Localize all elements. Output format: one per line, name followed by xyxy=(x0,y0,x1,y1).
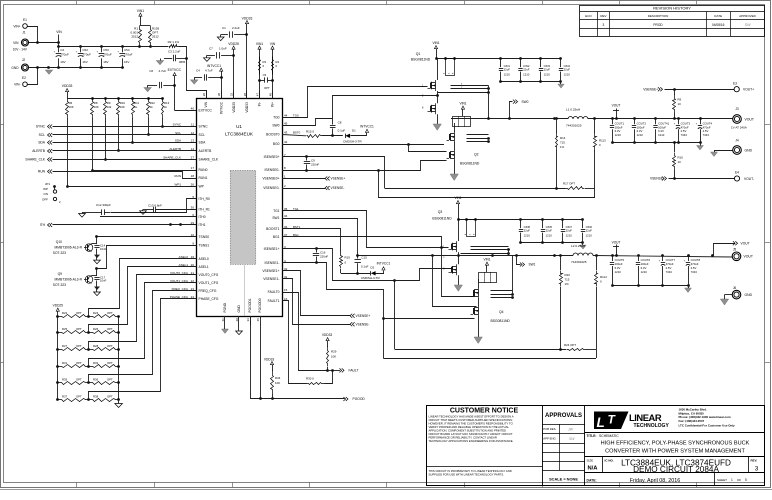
svg-text:DATE: DATE xyxy=(714,14,722,18)
svg-text:270uF: 270uF xyxy=(124,52,133,56)
svg-text:D1: D1 xyxy=(352,129,356,133)
svg-text:R23: R23 xyxy=(93,311,99,315)
svg-text:7343: 7343 xyxy=(703,133,710,137)
svg-text:SW0: SW0 xyxy=(272,124,279,128)
svg-text:10V - 14V: 10V - 14V xyxy=(13,47,28,51)
svg-text:0805: 0805 xyxy=(179,60,186,64)
svg-text:VIN: VIN xyxy=(204,101,208,107)
svg-text:THIS CIRCUIT IS PROPRIETARY TO: THIS CIRCUIT IS PROPRIETARY TO LINEAR TE… xyxy=(429,469,512,473)
svg-text:PHASE_CFG: PHASE_CFG xyxy=(170,295,189,299)
svg-text:IN+: IN+ xyxy=(271,102,275,107)
svg-text:1210: 1210 xyxy=(566,234,573,238)
svg-text:R24 OPT: R24 OPT xyxy=(564,343,576,347)
svg-text:DESCRIPTION: DESCRIPTION xyxy=(648,14,669,18)
svg-text:VIN1: VIN1 xyxy=(483,258,490,262)
svg-text:OPT: OPT xyxy=(76,395,82,399)
svg-text:715: 715 xyxy=(560,141,565,145)
svg-text:38: 38 xyxy=(217,93,221,97)
svg-text:ALERTB: ALERTB xyxy=(32,149,46,153)
svg-text:GND: GND xyxy=(11,66,19,70)
svg-text:PROD: PROD xyxy=(653,23,663,27)
svg-text:RUN1: RUN1 xyxy=(199,176,208,180)
svg-text:270uF: 270uF xyxy=(82,52,91,56)
svg-text:1210: 1210 xyxy=(637,133,644,137)
svg-text:IC NO.: IC NO. xyxy=(605,458,614,462)
svg-text:EXTVCC: EXTVCC xyxy=(168,68,182,72)
svg-text:22uF: 22uF xyxy=(544,68,551,72)
svg-text:ISENSE1-: ISENSE1- xyxy=(264,261,279,265)
svg-text:R38: R38 xyxy=(93,395,99,399)
svg-text:VOUT0_CFG: VOUT0_CFG xyxy=(199,273,219,277)
svg-text:BSG0811ND: BSG0811ND xyxy=(491,319,511,323)
svg-text:OPT: OPT xyxy=(107,378,113,382)
svg-text:4.7uF: 4.7uF xyxy=(159,69,167,73)
svg-text:R37: R37 xyxy=(62,395,68,399)
svg-text:REVISION HISTORY: REVISION HISTORY xyxy=(653,6,691,11)
svg-text:INTVCC1: INTVCC1 xyxy=(377,262,391,266)
svg-text:OPT: OPT xyxy=(107,327,113,331)
svg-text:18: 18 xyxy=(191,174,195,178)
svg-text:VSENSE+: VSENSE+ xyxy=(331,177,346,181)
svg-text:ISENSE1+: ISENSE1+ xyxy=(264,247,280,251)
svg-text:J4: J4 xyxy=(735,139,739,143)
svg-text:SYNC: SYNC xyxy=(173,123,182,127)
svg-text:C1: C1 xyxy=(222,26,226,30)
svg-text:1210: 1210 xyxy=(524,234,531,238)
svg-text:VDD25: VDD25 xyxy=(53,304,64,308)
svg-text:R15 0: R15 0 xyxy=(306,129,314,133)
svg-text:VIN1: VIN1 xyxy=(256,42,263,46)
svg-text:SHARE_CLK: SHARE_CLK xyxy=(163,156,181,160)
svg-text:APPROVED: APPROVED xyxy=(739,14,757,18)
svg-text:SCALE = NONE: SCALE = NONE xyxy=(549,476,578,481)
svg-text:1210: 1210 xyxy=(504,73,511,77)
svg-text:VOUT+: VOUT+ xyxy=(743,88,754,92)
svg-text:L2 0.25uH: L2 0.25uH xyxy=(571,244,585,248)
svg-text:JP1: JP1 xyxy=(45,182,51,186)
svg-text:Q10: Q10 xyxy=(56,240,62,244)
svg-text:LTC3884EUK: LTC3884EUK xyxy=(225,132,254,137)
svg-text:J2: J2 xyxy=(22,58,26,62)
svg-text:JW: JW xyxy=(567,428,574,432)
svg-text:VOUT1_CFG: VOUT1_CFG xyxy=(199,281,219,285)
svg-text:22uF: 22uF xyxy=(586,229,593,233)
svg-text:VOUT-: VOUT- xyxy=(744,177,754,181)
svg-text:ISENSE0-: ISENSE0- xyxy=(264,168,279,172)
svg-text:CONVERTER WITH POWER SYSTEM MA: CONVERTER WITH POWER SYSTEM MANAGEMENT xyxy=(605,449,745,455)
svg-text:TECHNOLOGY APPLICATIONS ENGINE: TECHNOLOGY APPLICATIONS ENGINEERING FOR … xyxy=(429,439,514,443)
svg-text:VDD33: VDD33 xyxy=(242,16,253,20)
svg-text:22uF: 22uF xyxy=(523,68,530,72)
svg-text:VOUT: VOUT xyxy=(744,255,753,259)
svg-text:42: 42 xyxy=(284,140,288,144)
svg-text:R30 0: R30 0 xyxy=(306,377,314,381)
svg-text:R34: R34 xyxy=(275,376,281,380)
svg-text:10K: 10K xyxy=(94,105,99,109)
svg-text:SDA: SDA xyxy=(38,141,46,145)
svg-text:ASEL0: ASEL0 xyxy=(179,255,189,259)
svg-text:LTC Confidential-For Customer: LTC Confidential-For Customer Use Only xyxy=(679,423,736,427)
svg-text:16V: 16V xyxy=(103,60,108,64)
svg-text:VDD33: VDD33 xyxy=(322,333,333,337)
svg-text:SYNC: SYNC xyxy=(36,125,46,129)
svg-text:SDA: SDA xyxy=(175,139,181,143)
svg-text:OPT: OPT xyxy=(76,327,82,331)
svg-text:PGND: PGND xyxy=(223,302,227,312)
svg-text:TSNS0: TSNS0 xyxy=(199,235,210,239)
svg-text:E2: E2 xyxy=(22,76,26,80)
svg-text:ITH1: ITH1 xyxy=(199,223,206,227)
svg-text:VSENSE+: VSENSE+ xyxy=(356,314,371,318)
svg-text:APPROVALS: APPROVALS xyxy=(545,413,582,419)
svg-text:SDA: SDA xyxy=(199,141,207,145)
svg-text:C8: C8 xyxy=(338,120,342,124)
svg-text:BG0: BG0 xyxy=(273,142,280,146)
svg-text:C3 2.2uF: C3 2.2uF xyxy=(168,50,181,54)
svg-text:N/A: N/A xyxy=(588,466,599,472)
svg-text:BG1: BG1 xyxy=(273,235,280,239)
svg-text:270uF: 270uF xyxy=(103,52,112,56)
svg-text:INTVCC: INTVCC xyxy=(219,101,223,114)
svg-text:VIN: VIN xyxy=(56,30,62,34)
svg-text:TECHNOLOGY: TECHNOLOGY xyxy=(634,423,670,429)
svg-text:INTVCC1: INTVCC1 xyxy=(360,125,374,129)
svg-text:R35: R35 xyxy=(62,378,68,382)
svg-text:Q4: Q4 xyxy=(499,310,504,314)
svg-text:VDD25: VDD25 xyxy=(232,102,236,113)
svg-text:VOUT1_CFG: VOUT1_CFG xyxy=(170,279,189,283)
svg-text:22uF: 22uF xyxy=(566,229,573,233)
svg-text:VSENSE0-: VSENSE0- xyxy=(263,186,279,190)
svg-text:1V AT 240A: 1V AT 240A xyxy=(731,126,747,130)
svg-text:220nF: 220nF xyxy=(311,163,319,167)
svg-text:E4: E4 xyxy=(735,171,739,175)
svg-text:VDD25: VDD25 xyxy=(228,42,239,46)
svg-text:WP: WP xyxy=(199,185,205,189)
svg-text:SCL: SCL xyxy=(39,133,46,137)
svg-text:C7: C7 xyxy=(209,47,213,51)
svg-text:APP ENG.: APP ENG. xyxy=(543,436,556,440)
svg-text:SHARE_CLK: SHARE_CLK xyxy=(25,158,45,162)
svg-text:0.1uF: 0.1uF xyxy=(361,265,369,269)
svg-text:1.0uF: 1.0uF xyxy=(219,47,227,51)
svg-text:SYNC: SYNC xyxy=(199,125,209,129)
svg-text:R113: R113 xyxy=(599,139,606,143)
svg-text:ASEL1: ASEL1 xyxy=(179,263,189,267)
svg-text:DEMO CIRCUIT 2084A: DEMO CIRCUIT 2084A xyxy=(633,465,719,474)
svg-text:BST0: BST0 xyxy=(293,130,301,134)
svg-text:VIN1: VIN1 xyxy=(459,102,466,106)
svg-text:10: 10 xyxy=(678,160,682,164)
svg-text:R32: R32 xyxy=(93,361,99,365)
svg-text:L: L xyxy=(597,415,605,430)
svg-text:SW: SW xyxy=(569,437,575,441)
svg-text:ASEL1: ASEL1 xyxy=(199,265,209,269)
svg-text:SIZE: SIZE xyxy=(587,458,594,462)
svg-text:33: 33 xyxy=(229,93,233,97)
svg-text:BSG0811ND: BSG0811ND xyxy=(432,216,452,220)
svg-text:FREQ_CFG: FREQ_CFG xyxy=(172,287,189,291)
svg-text:VSENSE+: VSENSE+ xyxy=(643,87,658,91)
svg-text:04/08/16: 04/08/16 xyxy=(712,23,725,27)
svg-text:VERIFY PROPER AND RELIABLE OPE: VERIFY PROPER AND RELIABLE OPERATION IN … xyxy=(429,425,510,429)
svg-text:3: 3 xyxy=(603,23,605,27)
svg-text:47: 47 xyxy=(255,93,259,97)
svg-text:10k: 10k xyxy=(107,105,112,109)
svg-text:J1: J1 xyxy=(22,31,26,35)
svg-text:R17 OPT: R17 OPT xyxy=(563,182,575,186)
svg-text:744301025: 744301025 xyxy=(566,124,582,128)
svg-text:WP: WP xyxy=(43,187,48,191)
svg-text:J6: J6 xyxy=(733,286,737,290)
svg-text:22uF: 22uF xyxy=(546,229,553,233)
svg-text:VOUT0_CFG: VOUT0_CFG xyxy=(170,271,189,275)
svg-text:Fax: (408)434-0507: Fax: (408)434-0507 xyxy=(679,419,705,423)
svg-text:OPT: OPT xyxy=(264,86,270,90)
svg-text:SW0: SW0 xyxy=(522,100,529,104)
svg-text:SCL: SCL xyxy=(199,133,206,137)
svg-text:SW1: SW1 xyxy=(529,263,536,267)
svg-text:HOWEVER, IT REMAINS THE CUSTOM: HOWEVER, IT REMAINS THE CUSTOMER'S RESPO… xyxy=(429,421,513,425)
svg-text:10K: 10K xyxy=(120,105,125,109)
svg-text:VOUT: VOUT xyxy=(745,117,754,121)
svg-text:3: 3 xyxy=(755,465,759,472)
svg-text:15: 15 xyxy=(284,288,288,292)
svg-text:TG1: TG1 xyxy=(273,209,280,213)
svg-text:ITH_R0: ITH_R0 xyxy=(199,197,211,201)
svg-text:R20: R20 xyxy=(565,273,571,277)
svg-text:IN-: IN- xyxy=(258,102,262,106)
svg-text:1: 1 xyxy=(731,478,733,482)
svg-text:C5: C5 xyxy=(263,73,267,77)
svg-text:FAULT1: FAULT1 xyxy=(268,299,280,303)
svg-text:Friday, April 08, 2016: Friday, April 08, 2016 xyxy=(630,478,681,484)
svg-text:DATE:: DATE: xyxy=(587,479,597,483)
svg-text:SUPPLIED FOR USE WITH LINEAR T: SUPPLIED FOR USE WITH LINEAR TECHNOLOGY … xyxy=(429,472,505,476)
svg-text:10K: 10K xyxy=(331,355,336,359)
svg-text:SOT-323: SOT-323 xyxy=(53,251,66,255)
svg-text:HIGH EFFICIENCY, POLY-PHASE SY: HIGH EFFICIENCY, POLY-PHASE SYNCHRONOUS … xyxy=(601,441,750,447)
svg-text:48: 48 xyxy=(268,93,272,97)
svg-text:VSENSE-: VSENSE- xyxy=(331,186,345,190)
svg-text:OF: OF xyxy=(737,478,741,482)
svg-text:Q1: Q1 xyxy=(416,52,421,56)
svg-text:R26: R26 xyxy=(93,327,99,331)
svg-text:FREQ_CFG: FREQ_CFG xyxy=(199,289,217,293)
svg-text:R27: R27 xyxy=(62,344,68,348)
svg-text:BSG0811ND: BSG0811ND xyxy=(411,57,431,61)
svg-text:SOT-323: SOT-323 xyxy=(53,283,66,287)
svg-text:5: 5 xyxy=(745,478,747,482)
svg-text:REV.: REV. xyxy=(751,458,758,462)
svg-text:SW1: SW1 xyxy=(272,216,279,220)
svg-text:MMBT3906-AL3-R: MMBT3906-AL3-R xyxy=(55,278,83,282)
svg-text:7343: 7343 xyxy=(681,133,688,137)
svg-text:TITLE:: TITLE: xyxy=(587,434,597,438)
svg-text:RUN: RUN xyxy=(175,174,182,178)
svg-text:OPT: OPT xyxy=(76,344,82,348)
svg-text:R36: R36 xyxy=(93,378,99,382)
svg-text:OPT: OPT xyxy=(107,395,113,399)
svg-text:VIN: VIN xyxy=(13,41,19,45)
svg-text:2512: 2512 xyxy=(152,35,159,39)
svg-text:ITH: ITH xyxy=(40,223,46,227)
svg-text:VSENSE1-: VSENSE1- xyxy=(263,277,279,281)
svg-text:OPT: OPT xyxy=(76,378,82,382)
svg-text:PGOOD1: PGOOD1 xyxy=(248,298,252,312)
svg-text:R22: R22 xyxy=(62,311,68,315)
svg-text:VIN1: VIN1 xyxy=(137,9,144,13)
svg-text:R5: R5 xyxy=(678,98,682,102)
svg-text:C13 6.8nF: C13 6.8nF xyxy=(148,204,162,208)
svg-text:ALERTB: ALERTB xyxy=(199,149,213,153)
svg-text:R25: R25 xyxy=(62,327,68,331)
svg-text:16V: 16V xyxy=(124,60,129,64)
svg-text:2.2uF: 2.2uF xyxy=(232,26,240,30)
svg-text:22uF: 22uF xyxy=(524,229,531,233)
svg-text:10nF: 10nF xyxy=(100,279,107,283)
svg-text:L1 0.25uH: L1 0.25uH xyxy=(566,108,580,112)
svg-text:E3: E3 xyxy=(733,82,737,86)
svg-text:TG0: TG0 xyxy=(293,113,299,117)
svg-text:10K: 10K xyxy=(69,105,74,109)
svg-text:10K: 10K xyxy=(275,381,280,385)
svg-text:Q3: Q3 xyxy=(438,210,443,214)
svg-text:CMDSH-3-TR: CMDSH-3-TR xyxy=(343,140,362,144)
svg-text:17: 17 xyxy=(191,166,195,170)
svg-text:REV: REV xyxy=(600,14,606,18)
svg-text:1%: 1% xyxy=(560,145,565,149)
svg-text:1210: 1210 xyxy=(615,133,622,137)
svg-text:7343: 7343 xyxy=(666,270,673,274)
svg-text:ITH0: ITH0 xyxy=(199,215,206,219)
svg-text:VSENSE-: VSENSE- xyxy=(356,322,370,326)
svg-text:VIN+: VIN+ xyxy=(13,24,20,28)
svg-text:1210: 1210 xyxy=(586,234,593,238)
svg-text:J5: J5 xyxy=(733,248,737,252)
svg-text:ALERTB: ALERTB xyxy=(169,147,181,151)
svg-text:0.1uF: 0.1uF xyxy=(338,129,346,133)
svg-text:ASEL0: ASEL0 xyxy=(199,257,209,261)
svg-text:C15: C15 xyxy=(362,256,368,260)
svg-text:SCHEMATIC: SCHEMATIC xyxy=(599,434,619,438)
svg-text:RUN: RUN xyxy=(38,170,46,174)
svg-text:16V: 16V xyxy=(82,60,87,64)
svg-text:PGOOD: PGOOD xyxy=(353,397,366,401)
svg-text:RUN0: RUN0 xyxy=(199,168,208,172)
svg-text:OFF: OFF xyxy=(42,198,48,202)
svg-text:ITH_R1: ITH_R1 xyxy=(199,208,211,212)
svg-text:FAULT0: FAULT0 xyxy=(268,290,280,294)
svg-text:LINEAR TECHNOLOGY HAS MADE A B: LINEAR TECHNOLOGY HAS MADE A BEST EFFORT… xyxy=(429,414,514,418)
svg-text:VDD33: VDD33 xyxy=(62,84,73,88)
svg-text:744301025: 744301025 xyxy=(571,260,587,264)
svg-text:1210: 1210 xyxy=(615,270,622,274)
svg-text:MMBT3906-AL3-R: MMBT3906-AL3-R xyxy=(55,246,83,250)
svg-text:C12 330pF: C12 330pF xyxy=(96,203,111,207)
svg-text:10nF: 10nF xyxy=(100,247,107,251)
svg-text:E1: E1 xyxy=(23,18,27,22)
svg-text:VOUT: VOUT xyxy=(612,241,621,245)
svg-text:R28: R28 xyxy=(93,344,99,348)
svg-text:1210: 1210 xyxy=(523,73,530,77)
svg-text:CIRCUIT BOARD LAYOUT MAY SIGNI: CIRCUIT BOARD LAYOUT MAY SIGNIFICANTLY A… xyxy=(429,432,513,436)
svg-text:1%: 1% xyxy=(565,282,570,286)
svg-text:46: 46 xyxy=(256,318,260,322)
svg-text:R114: R114 xyxy=(600,275,607,279)
svg-text:1210: 1210 xyxy=(641,270,648,274)
svg-text:PCB DES.: PCB DES. xyxy=(543,427,556,431)
svg-text:Q2: Q2 xyxy=(474,153,479,157)
svg-text:APPLICATION. COMPONENT SUBSTI: APPLICATION. COMPONENT SUBSTITUTION AND … xyxy=(429,429,507,433)
svg-text:PERFORMANCE OR RELIABILITY. C: PERFORMANCE OR RELIABILITY. CONTACT LINE… xyxy=(429,436,497,440)
svg-text:SHEET: SHEET xyxy=(717,478,727,482)
svg-text:ECO: ECO xyxy=(585,14,592,18)
svg-text:22uF: 22uF xyxy=(564,68,571,72)
svg-text:OPT: OPT xyxy=(107,361,113,365)
svg-text:BSG0811ND: BSG0811ND xyxy=(460,162,480,166)
svg-text:BOOST1: BOOST1 xyxy=(266,227,280,231)
svg-text:VDD33: VDD33 xyxy=(264,357,275,361)
svg-text:16V: 16V xyxy=(60,60,65,64)
svg-text:OPT: OPT xyxy=(107,344,113,348)
svg-text:1210: 1210 xyxy=(564,73,571,77)
svg-text:R31: R31 xyxy=(62,361,68,365)
svg-text:1210: 1210 xyxy=(546,234,553,238)
svg-text:VIN: VIN xyxy=(270,42,276,46)
svg-text:FAULT: FAULT xyxy=(349,369,359,373)
svg-text:7343: 7343 xyxy=(691,270,698,274)
svg-text:2512: 2512 xyxy=(131,35,138,39)
svg-text:715: 715 xyxy=(565,278,570,282)
svg-text:OPT: OPT xyxy=(76,311,82,315)
svg-text:VDD33: VDD33 xyxy=(245,102,249,113)
svg-text:R29: R29 xyxy=(331,350,337,354)
svg-text:10: 10 xyxy=(678,102,682,106)
svg-text:GND: GND xyxy=(745,293,753,297)
svg-text:VIN1: VIN1 xyxy=(454,196,461,200)
svg-text:VSENSE1+: VSENSE1+ xyxy=(262,269,279,273)
svg-text:SCL: SCL xyxy=(175,131,181,135)
svg-text:OPT: OPT xyxy=(76,361,82,365)
svg-text:LINEAR: LINEAR xyxy=(629,412,662,423)
svg-text:TG0: TG0 xyxy=(273,116,280,120)
svg-text:BOOST0: BOOST0 xyxy=(266,133,280,137)
svg-text:270uF: 270uF xyxy=(60,52,69,56)
svg-text:VSENSE0+: VSENSE0+ xyxy=(262,177,279,181)
svg-text:INTVCC1: INTVCC1 xyxy=(207,64,221,68)
svg-text:SHARE_CLK: SHARE_CLK xyxy=(199,158,219,162)
svg-text:OPT: OPT xyxy=(107,311,113,315)
svg-text:CMDSH-3-TR: CMDSH-3-TR xyxy=(361,276,380,280)
svg-text:4.7uF: 4.7uF xyxy=(205,68,213,72)
svg-text:CUSTOMER NOTICE: CUSTOMER NOTICE xyxy=(450,408,519,415)
svg-text:34: 34 xyxy=(284,214,288,218)
svg-text:TSNS1: TSNS1 xyxy=(199,244,210,248)
svg-text:U1: U1 xyxy=(236,124,242,129)
svg-text:R16: R16 xyxy=(678,156,684,160)
svg-text:D2: D2 xyxy=(371,266,375,270)
svg-text:ISENSE0+: ISENSE0+ xyxy=(264,155,280,159)
svg-text:VIN1: VIN1 xyxy=(432,41,439,45)
svg-text:R19: R19 xyxy=(345,256,351,260)
svg-text:C4: C4 xyxy=(196,68,200,72)
svg-text:ON: ON xyxy=(44,192,49,196)
svg-text:VOUT: VOUT xyxy=(741,242,750,246)
svg-text:22uF: 22uF xyxy=(504,68,511,72)
svg-text:CIRCUIT THAT MEETS CUSTOMER-SU: CIRCUIT THAT MEETS CUSTOMER-SUPPLIED SPE… xyxy=(429,418,513,422)
svg-text:1210: 1210 xyxy=(658,133,665,137)
